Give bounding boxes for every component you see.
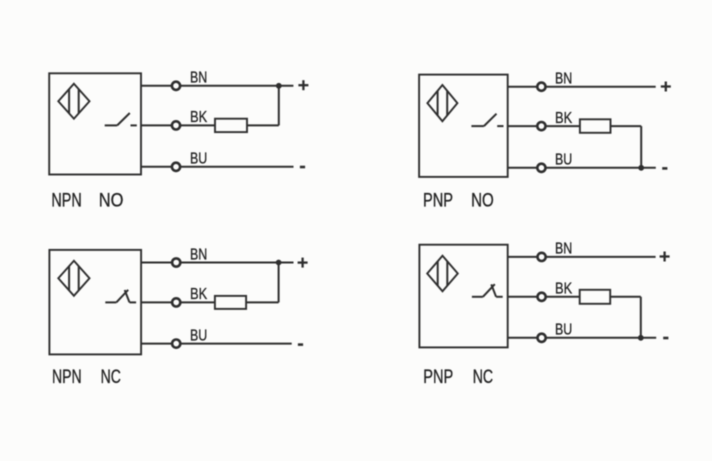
wire from resistor to vertical (NPN NO) xyxy=(247,124,279,126)
resistor load (NPN NC) xyxy=(215,296,246,309)
wire from resistor to vertical (NPN NC) xyxy=(246,301,279,303)
wire BU (PNP NC) xyxy=(508,337,657,339)
terminal circle BU (NPN NC) xyxy=(172,340,180,348)
terminal circle BK (NPN NC) xyxy=(172,298,180,306)
wire BU (NPN NC) xyxy=(141,343,292,345)
terminal circle BU (NPN NO) xyxy=(172,163,180,171)
switch contact NC (NPN NC) xyxy=(105,290,136,303)
resistor load (PNP NO) xyxy=(580,119,611,133)
proximity sensor diamond symbol (PNP NO) xyxy=(427,85,457,121)
terminal circle BU (PNP NC) xyxy=(538,334,546,342)
vertical wire down to BU (PNP NO) xyxy=(640,126,642,168)
wire BN (PNP NO) xyxy=(508,86,656,88)
wire BN (NPN NO) xyxy=(141,85,293,87)
junction dot on BN (NPN NO) xyxy=(276,83,282,89)
svg-text:BK: BK xyxy=(190,286,207,303)
sensor body box (NPN NO) xyxy=(49,73,141,174)
svg-text:BN: BN xyxy=(190,70,207,87)
svg-text:BK: BK xyxy=(190,109,207,126)
svg-text:BK: BK xyxy=(555,110,572,127)
wire BN (NPN NC) xyxy=(141,262,293,264)
junction dot on BN (NPN NC) xyxy=(276,260,282,266)
terminal circle BK (PNP NC) xyxy=(538,293,546,301)
svg-text:BN: BN xyxy=(555,71,572,88)
svg-text:NPN: NPN xyxy=(52,367,82,388)
svg-text:NC: NC xyxy=(101,367,121,388)
wire BN (PNP NC) xyxy=(508,256,656,258)
svg-text:BU: BU xyxy=(190,327,207,344)
terminal circle BK (NPN NO) xyxy=(172,121,180,129)
svg-text:BK: BK xyxy=(555,281,572,298)
svg-text:NC: NC xyxy=(473,367,493,388)
minus terminal (NPN NO) xyxy=(300,166,305,169)
minus terminal (NPN NC) xyxy=(298,343,303,346)
junction dot on BU (PNP NO) xyxy=(638,165,644,171)
sensor body box (PNP NO) xyxy=(419,75,508,177)
minus terminal (PNP NO) xyxy=(662,167,667,170)
svg-text:BU: BU xyxy=(555,322,572,339)
svg-text:PNP: PNP xyxy=(423,367,453,388)
svg-text:PNP: PNP xyxy=(423,190,453,211)
wire from resistor to vertical (PNP NO) xyxy=(611,125,642,127)
switch contact NO (NPN NO) xyxy=(105,113,137,125)
svg-text:NO: NO xyxy=(471,190,494,211)
proximity sensor diamond symbol (NPN NO) xyxy=(58,84,89,119)
resistor load (NPN NO) xyxy=(215,119,247,132)
terminal circle BN (PNP NC) xyxy=(538,253,546,261)
terminal circle BN (PNP NO) xyxy=(537,83,545,91)
vertical wire down to BU (PNP NC) xyxy=(640,297,642,338)
plus terminal (NPN NC) xyxy=(298,258,308,268)
sensor body box (NPN NC) xyxy=(49,250,141,355)
switch contact NO (PNP NO) xyxy=(471,114,503,126)
svg-text:NO: NO xyxy=(99,190,124,211)
wire BU (NPN NO) xyxy=(141,166,294,168)
proximity sensor diamond symbol (NPN NC) xyxy=(58,261,89,296)
wire BK (PNP NC) xyxy=(508,296,580,298)
svg-text:BU: BU xyxy=(190,151,207,168)
wire from resistor to vertical (PNP NC) xyxy=(610,296,641,298)
terminal circle BN (NPN NC) xyxy=(172,258,180,266)
svg-text:BU: BU xyxy=(555,152,572,169)
sensor body box (PNP NC) xyxy=(419,245,507,348)
vertical wire up to BN (NPN NC) xyxy=(278,263,280,303)
wire BU (PNP NO) xyxy=(508,167,656,169)
svg-text:BN: BN xyxy=(190,246,207,263)
plus terminal (PNP NO) xyxy=(661,82,671,92)
wire BK (NPN NO) xyxy=(141,124,215,126)
terminal circle BU (PNP NO) xyxy=(537,164,545,172)
terminal circle BN (NPN NO) xyxy=(172,82,180,90)
plus terminal (PNP NC) xyxy=(660,252,670,262)
svg-text:BN: BN xyxy=(555,241,572,258)
junction dot on BU (PNP NC) xyxy=(638,335,644,341)
proximity sensor diamond symbol (PNP NC) xyxy=(427,256,458,292)
switch contact NC (PNP NC) xyxy=(472,284,503,297)
wire BK (PNP NO) xyxy=(508,125,580,127)
wire BK (NPN NC) xyxy=(141,301,215,303)
plus terminal (NPN NO) xyxy=(298,80,308,90)
svg-text:NPN: NPN xyxy=(51,190,81,211)
terminal circle BK (PNP NO) xyxy=(537,122,545,130)
resistor load (PNP NC) xyxy=(580,290,611,304)
vertical wire up to BN (NPN NO) xyxy=(278,86,280,126)
minus terminal (PNP NC) xyxy=(663,337,668,340)
